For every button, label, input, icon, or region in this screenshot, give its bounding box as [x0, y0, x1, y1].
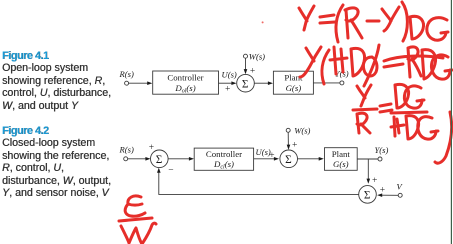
- wire W to sum fig4.1: [244, 58, 248, 74]
- red eq1 D: [410, 16, 423, 39]
- node W(s) fig4.2: [286, 126, 310, 136]
- wire sum to plant fig4.1: [254, 81, 273, 85]
- svg-text:Σ: Σ: [364, 190, 371, 202]
- red eq3 D denominator: [406, 116, 419, 139]
- summing junction C fig4.2: [359, 186, 377, 204]
- summing junction A fig4.2: [151, 150, 169, 168]
- green page edge line: [450, 0, 452, 244]
- wire W to sum B fig4.2: [287, 133, 291, 150]
- red eq1 Y: [299, 6, 314, 30]
- wire R to controller fig4.1: [129, 81, 153, 85]
- red eq3 equals: [380, 104, 392, 112]
- svg-text:Σ: Σ: [285, 154, 292, 166]
- svg-text:−: −: [168, 166, 173, 176]
- red fraction W denominator: [121, 223, 156, 244]
- red eq2 close paren: [364, 45, 379, 86]
- red eq2 D: [422, 50, 436, 79]
- svg-text:Y(s): Y(s): [375, 145, 389, 155]
- caption figure 4.2: [2, 125, 111, 200]
- wire branch down to sum C fig4.2: [367, 159, 371, 184]
- red eq3 one denominator: [394, 117, 395, 136]
- plant G box fig4.1: [273, 71, 313, 94]
- svg-text:V: V: [397, 182, 404, 192]
- node V input fig4.2: [397, 182, 404, 198]
- wire plant to output node fig4.1: [313, 82, 339, 84]
- wire controller to sum fig4.1: [219, 81, 237, 85]
- summing junction fig4.1: [237, 74, 255, 92]
- svg-text:U(s): U(s): [222, 70, 237, 80]
- red eq3 G denominator with curl: [418, 117, 438, 140]
- svg-text:G(s): G(s): [286, 83, 302, 93]
- red eq2 plus: [330, 49, 347, 72]
- node Y(s) output fig4.2: [375, 145, 389, 161]
- red eq2 equals long stroke: [384, 56, 443, 67]
- red eq3 G numerator: [404, 86, 424, 108]
- node R(s) input fig4.1: [119, 69, 134, 85]
- svg-text:R(s): R(s): [119, 69, 134, 79]
- red eq1 G: [427, 18, 448, 41]
- plant G box fig4.2: [325, 148, 358, 171]
- svg-text:+: +: [292, 141, 297, 151]
- caption figure 4.1: [2, 50, 111, 113]
- svg-text:+: +: [269, 151, 274, 161]
- svg-text:+: +: [225, 85, 230, 95]
- svg-text:+: +: [380, 185, 385, 195]
- red eq1 R: [345, 8, 362, 38]
- red eq1 minus: [367, 20, 379, 23]
- wire sum A to controller fig4.2: [168, 157, 194, 161]
- node R(s) input fig4.2: [119, 145, 134, 161]
- controller Dcl box fig4.2: [194, 148, 253, 170]
- red eq1 Y: [382, 7, 399, 31]
- svg-text:Controller: Controller: [167, 73, 203, 83]
- node W(s) fig4.1: [244, 52, 266, 62]
- red eq2 Y: [300, 47, 321, 77]
- wire R to sum A fig4.2: [128, 157, 151, 161]
- svg-text:R(s): R(s): [119, 145, 134, 155]
- red eq3 plus denominator: [391, 119, 404, 133]
- red eq2 G: [363, 57, 377, 76]
- svg-text:G(s): G(s): [333, 159, 349, 169]
- controller Dol box fig4.1: [153, 71, 219, 95]
- feedback wire sum C to sum A fig4.2: [157, 168, 359, 195]
- red eq1 equals: [320, 15, 335, 23]
- svg-text:+: +: [149, 143, 154, 153]
- red eq3 fraction bar right: [391, 112, 427, 113]
- red eq2 D: [351, 48, 365, 76]
- svg-text:Σ: Σ: [242, 78, 249, 90]
- wire sum B to plant fig4.2: [298, 157, 324, 161]
- svg-text:+: +: [250, 66, 255, 76]
- red eq3 R denominator: [357, 113, 370, 133]
- red eq3 Y numerator: [357, 85, 371, 106]
- red eq3 D numerator: [395, 84, 409, 108]
- svg-text:Plant: Plant: [332, 149, 351, 159]
- red eq1 open paren: [336, 5, 343, 42]
- summing junction B fig4.2: [280, 150, 298, 168]
- red eq3 fraction bar left: [353, 109, 377, 110]
- node Y(s) output fig4.1: [335, 69, 349, 85]
- red eq2 R: [408, 47, 421, 77]
- red eq2 one: [334, 47, 336, 74]
- red ink annotations: [119, 2, 452, 244]
- red eq1 close paren: [402, 2, 407, 41]
- red eq3 end curl stroke: [435, 112, 452, 163]
- red eq2 open paren: [322, 50, 329, 84]
- red eq2 G: [431, 55, 452, 79]
- wire V to sum C fig4.2: [377, 193, 398, 197]
- svg-text:+: +: [372, 176, 377, 186]
- svg-text:W(s): W(s): [249, 52, 265, 62]
- red fraction bar EW: [119, 218, 152, 221]
- svg-text:Controller: Controller: [206, 149, 242, 159]
- red stray dot: [262, 21, 264, 23]
- red fraction E numerator: [125, 196, 145, 216]
- wire plant to output node fig4.2: [357, 158, 378, 160]
- wire controller to sum B fig4.2: [254, 157, 279, 161]
- svg-text:W(s): W(s): [294, 126, 310, 136]
- svg-text:Σ: Σ: [156, 154, 163, 166]
